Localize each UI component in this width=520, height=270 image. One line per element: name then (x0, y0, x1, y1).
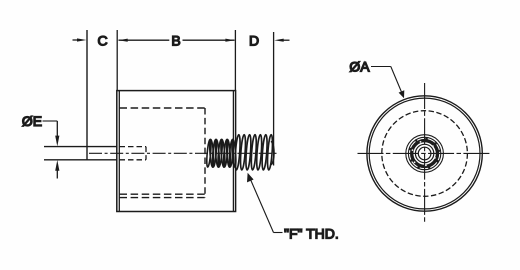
svg-text:D: D (249, 32, 259, 48)
shaft top edge + OE top extension line (44, 146, 117, 148)
hidden insert bottom dashed double line (120, 193, 206, 195)
exposed threaded stud coils (234, 134, 274, 170)
OE lower arrow pointing up (55, 160, 59, 179)
OA leader line with arrow (371, 67, 404, 99)
center hub circle 2 (408, 137, 440, 169)
center hub circle outer (406, 135, 444, 173)
hidden thread section inside body (206, 139, 237, 167)
hole circle 2 (415, 144, 433, 162)
svg-text:"F" THD.: "F" THD. (284, 226, 339, 242)
end view vertical centerline (424, 83, 426, 222)
end view horizontal centerline (358, 152, 492, 154)
shaft bottom edge + OE bottom extension line (44, 159, 117, 161)
hidden insert top dashed line (120, 107, 206, 109)
extension line at body right (x=235.4) (234, 30, 236, 91)
svg-text:ØA: ØA (349, 58, 370, 74)
OE leader horizontal (43, 120, 58, 122)
body inner right double line (232, 91, 234, 212)
second outer circle (369, 98, 480, 209)
hidden insert right dashed line (204, 108, 206, 198)
outer circle OA (367, 96, 482, 211)
hidden shaft continuation dashed (120, 147, 147, 160)
body outline rectangle (117, 91, 236, 212)
dimension line C arrow (outside, pointing right) (73, 38, 87, 41)
extension line at shaft left end (x=87) (86, 30, 88, 160)
hidden dashed circle (382, 111, 468, 197)
OE upper arrow pointing down (55, 121, 59, 146)
svg-text:B: B (171, 32, 180, 48)
svg-text:ØE: ØE (22, 113, 42, 129)
hole circle (418, 147, 431, 160)
part centerline (left view) (89, 152, 277, 154)
dimension line D arrow (outside, pointing left) (274, 39, 289, 42)
leader line for F THD (247, 173, 283, 233)
extension line at body left (x=117.6) (116, 30, 118, 91)
thread ring (end-on coil, dark irregular) (412, 141, 438, 167)
extension line at thread end (x=273.6) (273, 32, 275, 166)
svg-text:C: C (97, 32, 107, 48)
thread end cap (271, 142, 274, 165)
body inner left double line (118, 91, 120, 212)
dimension line B with arrows both ends (118, 39, 235, 42)
